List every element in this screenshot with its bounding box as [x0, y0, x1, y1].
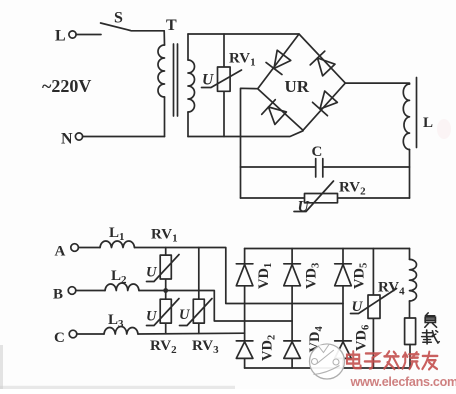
terminal L [69, 31, 76, 38]
bridge rectifier UR frame [258, 34, 346, 130]
svg-text:U: U [298, 199, 310, 216]
wire bridge left vertex to DC rail [241, 88, 258, 198]
svg-text:L: L [55, 28, 66, 45]
svg-text:U: U [146, 309, 158, 325]
wire N to transformer [83, 136, 165, 138]
diode VD2 [236, 340, 253, 342]
label VD4 [307, 326, 325, 353]
varistor RV1 (bottom) [165, 248, 167, 291]
switch S [101, 23, 165, 31]
wire phase B [76, 291, 292, 322]
inductor L (top circuit) [403, 84, 409, 150]
bridge diode top-right [310, 51, 336, 77]
svg-text:N: N [61, 131, 73, 148]
terminal N [75, 133, 82, 140]
terminal C [69, 330, 77, 338]
bridge diode bottom-left [262, 100, 288, 126]
diode VD4 [284, 340, 301, 342]
wire phase C [77, 332, 245, 335]
svg-text:U: U [146, 265, 158, 281]
diode VD5 [335, 263, 352, 265]
inductor L2 [105, 283, 139, 291]
bridge diode bottom-right [313, 90, 339, 116]
svg-text:U: U [179, 307, 191, 323]
wire diode column 1 [244, 249, 246, 369]
label VD1 [256, 263, 274, 289]
watermark text 电子发烧友 [347, 351, 437, 369]
wire secondary bottom to bridge [188, 131, 303, 137]
svg-text:UR: UR [285, 77, 310, 96]
svg-text:C: C [312, 144, 323, 160]
svg-text:B: B [53, 287, 63, 303]
wire bridge right vertex to inductor [345, 82, 409, 85]
scan edge artifacts [0, 386, 235, 389]
wire diode column 2 [291, 249, 293, 369]
svg-text:C: C [54, 330, 65, 346]
varistor RV2 (top circuit) [241, 197, 410, 199]
wire phase A [78, 248, 343, 304]
terminal A [71, 244, 79, 252]
varistor RV4 [372, 249, 374, 369]
svg-text:S: S [114, 10, 123, 27]
label VD5 [352, 263, 370, 289]
top DC bus [245, 248, 410, 250]
svg-text:A: A [55, 244, 66, 260]
bottom DC bus [245, 367, 410, 369]
svg-text:U: U [352, 299, 364, 315]
transformer T secondary winding [187, 34, 189, 60]
wire diode column 3 [342, 249, 344, 369]
capacitor C [241, 166, 410, 168]
wire secondary top to bridge [188, 33, 299, 35]
varistor RV3 [198, 248, 200, 334]
label VD3 [304, 263, 322, 289]
inductor L1 [100, 241, 135, 248]
bridge diode top-left [266, 49, 292, 74]
transformer T core [174, 44, 178, 116]
inductor (bottom circuit filter) [409, 249, 411, 260]
junction dot phase B [163, 288, 168, 293]
inductor L core bar [416, 78, 418, 148]
varistor RV2 (bottom) [165, 291, 167, 334]
svg-text:www.elecfans.com: www.elecfans.com [350, 375, 456, 389]
varistor RV1 (top circuit) [223, 34, 225, 137]
svg-text:~220V: ~220V [42, 76, 91, 96]
svg-text:L: L [423, 115, 433, 131]
diode VD1 [236, 263, 253, 265]
inductor L3 [104, 327, 138, 334]
svg-text:U: U [202, 72, 214, 89]
transformer T primary winding [163, 31, 165, 45]
terminal B [68, 287, 76, 295]
label load 负载 [422, 313, 439, 344]
diode VD3 [284, 263, 301, 265]
diode VD6 [335, 340, 352, 342]
svg-text:T: T [166, 17, 177, 34]
wire L to switch [76, 34, 101, 36]
load resistor [405, 318, 416, 345]
label VD6 [354, 325, 372, 351]
watermark logo circle [310, 344, 345, 379]
label VD2 [260, 335, 278, 361]
